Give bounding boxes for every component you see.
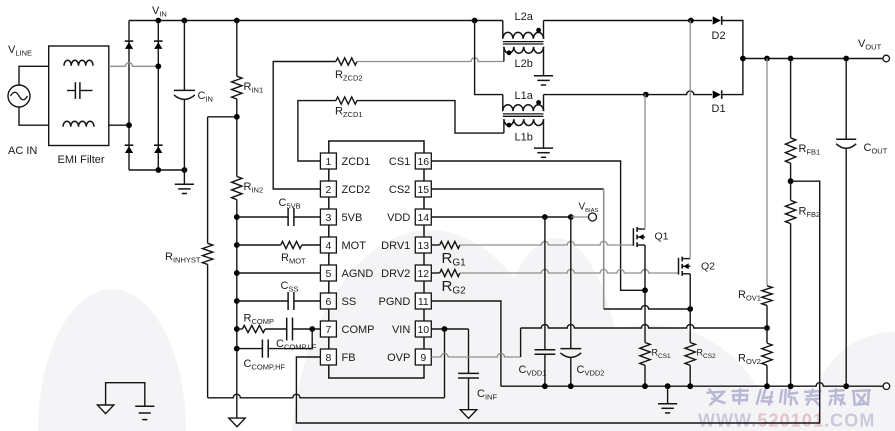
junction PGND CVDD2	[568, 383, 574, 389]
EMI filter capacitor	[67, 90, 75, 92]
wire DRV1 to RG1	[431, 244, 439, 246]
bridge diode top-left	[125, 40, 134, 42]
capacitor CSS	[237, 300, 288, 302]
terminal GND return	[883, 383, 890, 390]
resistor ROV1	[766, 59, 768, 286]
ground L1b	[534, 147, 553, 149]
watermark chinese text	[708, 389, 870, 404]
wire tee to RINHYST	[208, 116, 237, 118]
EMI filter box	[49, 46, 109, 146]
pin 5 box	[320, 265, 336, 281]
resistor RIN2	[236, 117, 238, 177]
resistor RZCD2	[336, 58, 357, 65]
svg-text:9: 9	[420, 352, 426, 364]
svg-text:OVP: OVP	[387, 352, 410, 364]
wire VOUT rail	[743, 58, 883, 60]
svg-text:1: 1	[325, 156, 331, 168]
pin 7 box	[320, 321, 336, 337]
svg-text:13: 13	[417, 240, 429, 252]
svg-text:EMI Filter: EMI Filter	[58, 154, 105, 166]
junction top rail L1 feed	[472, 18, 478, 24]
wire FB pin route	[296, 181, 819, 423]
svg-text:FB: FB	[342, 352, 356, 364]
junction OVP divider	[764, 325, 770, 331]
wire CS2 pin segment	[431, 188, 603, 190]
wire VBIAS	[571, 216, 588, 218]
svg-text:8: 8	[325, 352, 331, 364]
wire D1 cathode to output rail	[722, 59, 743, 95]
resistor RCS1	[640, 343, 650, 366]
svg-text:15: 15	[417, 184, 429, 196]
wire L1a to D1 anode (hops Q2 drain)	[544, 91, 713, 95]
svg-text:10: 10	[417, 324, 429, 336]
capacitor CVDD1	[544, 217, 546, 350]
junction FB divider	[788, 178, 794, 184]
wire bridge left column	[128, 21, 130, 171]
junction output COUT	[843, 56, 849, 62]
junction AGND 5VB	[234, 214, 240, 220]
svg-text:WWW.520101.COM: WWW.520101.COM	[698, 411, 875, 431]
resistor RZCD1	[336, 97, 357, 104]
junction top rail CIN	[182, 18, 188, 24]
terminal VOUT	[883, 55, 890, 62]
svg-text:Q1: Q1	[655, 231, 669, 243]
capacitor CVDD2	[570, 217, 572, 349]
wire D2 cathode to output rail	[722, 21, 743, 59]
wire Q2 source	[689, 274, 691, 309]
junction COMP node	[309, 326, 315, 332]
L2b phase dot	[507, 50, 512, 55]
svg-text:D2: D2	[712, 30, 726, 42]
junction output ROV1	[764, 56, 770, 62]
L1b phase dot	[507, 123, 512, 128]
junction bottom rail right column	[155, 167, 161, 173]
wire ground pair link	[106, 383, 145, 407]
resistor ROV2	[766, 328, 768, 343]
pin 2 box	[320, 181, 336, 197]
bridge diode bottom-left	[125, 144, 134, 146]
wire EMI to bridge upper (hops left column)	[109, 63, 159, 67]
wire VIN to RINHYST rail	[444, 329, 446, 398]
wire bridge bottom rail	[129, 169, 184, 171]
junction top rail RIN1	[234, 18, 240, 24]
wire DRV2 to RG2	[431, 272, 439, 274]
junction AGND AGNDpin	[234, 270, 240, 276]
resistor RCOMP	[237, 328, 243, 330]
wire RINHYST bottom rail (hops AGND, FB)	[208, 394, 445, 398]
svg-text:5VB: 5VB	[342, 212, 363, 224]
capacitor C5VB	[237, 216, 288, 218]
ground CINF triangle	[460, 410, 476, 419]
inductor L1a	[502, 95, 504, 112]
wire ZCD2 pin to RZCD2	[273, 62, 336, 190]
L2 core	[503, 41, 544, 43]
resistor RIN1	[236, 21, 238, 77]
capacitor COUT	[845, 59, 847, 140]
wire Q2 drain	[689, 21, 691, 259]
svg-text:CS1: CS1	[389, 156, 410, 168]
wire Q2 source to RCS2	[689, 309, 691, 343]
inductor L2b	[503, 47, 505, 62]
transistor Q1	[632, 228, 634, 246]
wire AC source top to EMI filter	[19, 66, 49, 85]
svg-text:2: 2	[325, 184, 331, 196]
terminal VBIAS	[589, 213, 597, 221]
junction PGND RCS2	[687, 383, 693, 389]
junction AGND MOT	[234, 242, 240, 248]
op-amp controller IC body	[329, 141, 424, 378]
wire OVP riser	[520, 328, 522, 357]
AC source VLINE circle	[8, 85, 30, 107]
pin 11 box	[415, 293, 431, 309]
svg-text:VIN: VIN	[392, 324, 410, 336]
svg-text:5: 5	[325, 268, 331, 280]
junction Q1 drain top	[643, 92, 649, 98]
pin 15 box	[415, 181, 431, 197]
junction VIN node	[442, 326, 448, 332]
EMI filter bottom inductor	[63, 121, 94, 127]
svg-text:12: 12	[417, 268, 429, 280]
svg-text:ZCD2: ZCD2	[342, 184, 371, 196]
wire Q1 source	[644, 245, 646, 290]
wire CS1	[431, 161, 645, 290]
pin 12 box	[415, 265, 431, 281]
svg-text:AGND: AGND	[342, 268, 374, 280]
svg-text:14: 14	[417, 212, 429, 224]
wire ZCD1 pin to RZCD1	[298, 101, 336, 161]
resistor RMOT	[237, 244, 281, 246]
wire L2a to D2 anode	[544, 20, 713, 22]
wire VIN rail to L1a	[475, 21, 503, 95]
transistor Q2	[678, 258, 680, 275]
junction RIN1 RIN2 RINHYST	[234, 114, 240, 120]
junction AGND SS	[234, 298, 240, 304]
junction EMI upper / bridge right column	[155, 63, 161, 69]
wire VDD rail	[431, 216, 571, 218]
svg-text:16: 16	[417, 156, 429, 168]
svg-text:4: 4	[325, 240, 331, 252]
junction PGND ROV2	[764, 383, 770, 389]
svg-text:L2a: L2a	[515, 11, 534, 23]
svg-text:6: 6	[325, 296, 331, 308]
bridge diode top-right	[154, 40, 163, 42]
wire AGND pin5	[237, 272, 321, 274]
L2a phase dot	[536, 28, 541, 33]
wire PGND rail (hops FB riser)	[501, 383, 883, 387]
pin 1 box	[320, 153, 336, 169]
svg-text:VDD: VDD	[387, 212, 410, 224]
junction output RFB1	[788, 56, 794, 62]
junction Q2 drain top	[688, 18, 694, 24]
resistor RFB1	[790, 59, 792, 138]
wire RG1 to Q1 gate (hops)	[460, 241, 634, 245]
capacitor CINF	[468, 329, 470, 374]
wire OVP to divider (hops)	[521, 324, 767, 328]
resistor RG2	[440, 269, 460, 276]
pin 13 box	[415, 237, 431, 253]
pin 14 box	[415, 209, 431, 225]
ground PGND earth	[667, 386, 669, 404]
ground bridge bottom	[183, 170, 185, 184]
resistor RCS2	[685, 343, 695, 366]
ground triangle bottom-left	[97, 405, 113, 414]
wire AC source bottom to EMI filter	[19, 107, 49, 125]
wire AGND rail	[236, 200, 238, 419]
pin 6 box	[320, 293, 336, 309]
junction VDD CVDD1	[542, 214, 548, 220]
wire Q1 source to RCS1	[644, 290, 646, 342]
svg-text:DRV2: DRV2	[381, 268, 410, 280]
junction PGND RFB2	[788, 383, 794, 389]
svg-text:COMP: COMP	[342, 324, 375, 336]
junction PGND COUT	[843, 383, 849, 389]
svg-text:L1a: L1a	[515, 90, 534, 102]
pin 16 box	[415, 153, 431, 169]
svg-text:AC IN: AC IN	[8, 145, 37, 157]
wire CS2 vertical	[603, 189, 605, 309]
pin 10 box	[415, 321, 431, 337]
svg-text:ZCD1: ZCD1	[342, 156, 371, 168]
diode D2	[713, 16, 721, 24]
junction bottom rail CIN	[182, 167, 188, 173]
ground L2b	[534, 75, 553, 77]
svg-text:DRV1: DRV1	[381, 240, 410, 252]
pin 3 box	[320, 209, 336, 225]
capacitor CCOMPHF	[237, 348, 263, 350]
junction output D bridge	[740, 56, 746, 62]
wire CS2 to Q2 source (hops Q1 source)	[604, 305, 691, 309]
wire RZCD1 to L1b	[357, 101, 504, 134]
junction AGND COMP	[234, 326, 240, 332]
capacitor CIN	[183, 21, 185, 91]
svg-text:SS: SS	[342, 296, 357, 308]
L1a phase dot	[536, 100, 541, 105]
capacitor CCOMPLF	[286, 318, 288, 341]
svg-text:7: 7	[325, 324, 331, 336]
pin 4 box	[320, 237, 336, 253]
wire RZCD2 to L2b (hops L1 feed)	[357, 58, 504, 62]
svg-text:11: 11	[418, 296, 429, 308]
junction EMI lower / bridge left column	[126, 122, 132, 128]
junction PGND CVDD1	[542, 383, 548, 389]
junction PGND RCS1	[642, 383, 648, 389]
resistor RG1	[440, 241, 460, 248]
pin 8 box	[320, 349, 336, 365]
L1 core	[503, 113, 544, 115]
ground earth bottom-left	[135, 405, 154, 407]
svg-text:MOT: MOT	[342, 240, 367, 252]
wire EMI to bridge lower	[109, 124, 129, 126]
junction AGND COMPHF	[234, 346, 240, 352]
svg-text:PGND: PGND	[379, 296, 411, 308]
wire VIN pin	[431, 328, 468, 330]
resistor RINHYST	[207, 117, 209, 244]
wire bridge right column	[157, 21, 159, 171]
diode D1	[713, 91, 721, 99]
svg-text:L1b: L1b	[515, 132, 533, 144]
junction CS2 Q2 source	[687, 306, 693, 312]
wire PGND	[431, 301, 501, 386]
junction Q1 source CS1	[642, 287, 648, 293]
junction VDD CVDD2	[568, 214, 574, 220]
bridge diode bottom-right	[154, 144, 163, 146]
wire RG2 to Q2 gate (hops)	[460, 269, 679, 273]
wire OVP pin (hops VIN, PGND)	[431, 353, 520, 357]
svg-text:3: 3	[325, 212, 331, 224]
svg-text:L2b: L2b	[515, 58, 533, 70]
pin 9 box	[415, 349, 431, 365]
EMI filter top inductor	[64, 60, 93, 66]
resistor RFB2	[790, 181, 792, 200]
inductor L2a	[502, 21, 504, 39]
junction top rail bridge right	[155, 18, 161, 24]
wire Q1 drain	[644, 95, 646, 229]
wire VIN top rail	[129, 20, 503, 22]
ground AGND triangle	[229, 418, 245, 427]
inductor L1b	[503, 119, 505, 133]
svg-text:D1: D1	[712, 103, 726, 115]
svg-text:CS2: CS2	[389, 184, 410, 196]
junction PGND gnd	[665, 383, 671, 389]
svg-text:Q2: Q2	[701, 261, 715, 273]
